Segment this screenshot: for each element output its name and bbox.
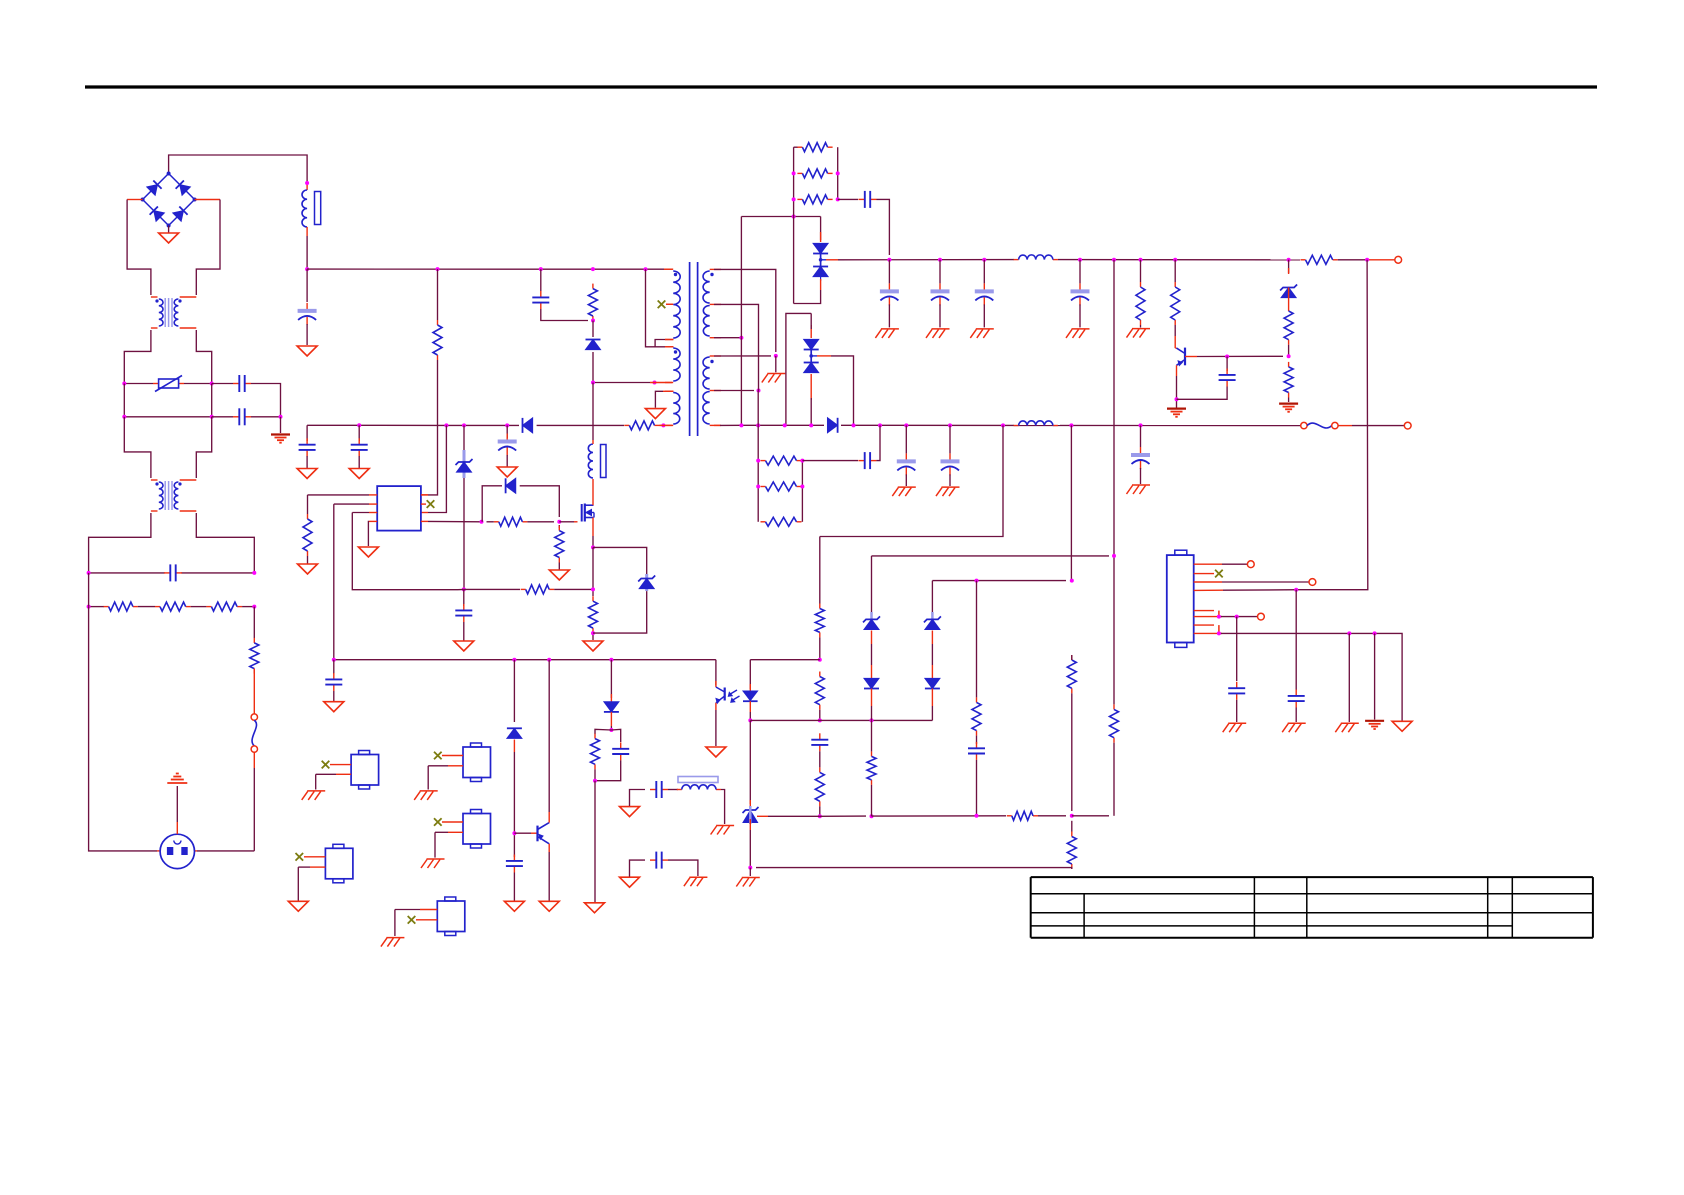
junction: [800, 459, 804, 463]
resistor R12: [797, 172, 802, 174]
ground under bridge: [159, 233, 179, 243]
wire MOSFET source: [592, 518, 594, 537]
wire snub branch: [976, 581, 978, 698]
wire to ground: [594, 781, 596, 902]
no-connect X P1: [322, 761, 330, 769]
wire pin4 cap branch: [1295, 590, 1297, 690]
junction: [512, 831, 516, 835]
wire S1 tap down: [714, 304, 759, 386]
chassis ground P3: [427, 858, 445, 860]
resistor R15: [1140, 282, 1142, 287]
chassis ground capacitor C14: [898, 486, 916, 488]
transformer T1 primary winding W4: [665, 390, 673, 392]
resistor stack R11 R12 R13: [794, 146, 798, 148]
wire pin6 cap branch: [1236, 617, 1238, 681]
resistor R1c: [206, 606, 211, 608]
capacitor C8: [888, 283, 890, 290]
wire left AC rail down to plug: [88, 573, 90, 607]
junction: [975, 814, 979, 818]
resistor R1a: [104, 606, 109, 608]
junction: [444, 423, 448, 427]
junction: [756, 459, 760, 463]
terminal -V: [1404, 422, 1411, 429]
resistor R27: [1071, 655, 1073, 660]
wire S1 bottom pin: [714, 337, 741, 339]
inductor L5: [677, 789, 682, 791]
wire clamp node to diode: [592, 321, 594, 338]
junction: [938, 258, 942, 262]
chassis ground capacitor C8: [881, 328, 899, 330]
junction: [878, 423, 882, 427]
chassis ground C16: [1132, 484, 1150, 486]
junction: [210, 415, 214, 419]
wire S1 top pin to junction: [714, 269, 776, 352]
inductor L1 with core: [306, 183, 308, 190]
junction: [591, 319, 595, 323]
junction: [1217, 631, 1221, 635]
junction: [1070, 579, 1074, 583]
connector J2 pin5: [1194, 610, 1214, 612]
transformer T1 core: [689, 262, 691, 436]
diode D6b: [813, 267, 828, 277]
wire C16 branch: [1140, 425, 1142, 447]
diode D9: [827, 418, 837, 433]
resistor R22: [819, 604, 821, 609]
transformer T1 secondary winding S2: [710, 355, 721, 357]
wire comp mid vertical: [1070, 425, 1072, 580]
wire R15 branch: [1140, 260, 1142, 282]
junction: [1069, 423, 1073, 427]
capacitor C16: [1140, 447, 1142, 454]
junction: [836, 171, 840, 175]
junction: [332, 658, 336, 662]
wire snubber cap branch 1: [306, 425, 308, 441]
capacitor C21: [620, 742, 622, 748]
junction: [852, 423, 856, 427]
capacitor C9: [939, 283, 941, 290]
circuit breaker F2: [1299, 425, 1302, 427]
wire L1 to HV rail: [306, 236, 308, 269]
junction: [1173, 258, 1177, 262]
ground LC: [620, 807, 640, 817]
ground under C1: [297, 346, 317, 356]
wire capacitor C15 branch: [949, 425, 951, 453]
wire aux rail upper: [740, 217, 742, 338]
junction: [783, 423, 787, 427]
ground under C19: [324, 702, 344, 712]
wire standby feed vertical: [1300, 260, 1368, 590]
junction: [462, 423, 466, 427]
wire aux ecap branch: [506, 425, 508, 438]
wire HV rail to transformer: [307, 268, 664, 270]
capacitor C6: [463, 604, 465, 610]
wire -V output rail: [714, 424, 720, 426]
ground P4: [288, 901, 308, 911]
junction: [252, 605, 256, 609]
wire X-cap row2: [124, 416, 211, 418]
wire LED anode: [750, 659, 820, 661]
capacitor C25: [1295, 690, 1297, 696]
no-connect X P4: [296, 853, 304, 861]
varistor RV1: [153, 383, 159, 385]
junction: [1287, 258, 1291, 262]
no-connect X pin2: [1215, 570, 1223, 578]
zener D5: [639, 579, 654, 589]
wire earth stem: [280, 417, 282, 433]
zener U3 TL431: [743, 807, 759, 813]
wire gnd branch 1349: [1348, 633, 1350, 722]
capacitor C3: [306, 438, 308, 444]
connector J2 pin7: [1194, 624, 1214, 626]
ground J2 pin8: [1392, 721, 1412, 731]
ground under C3: [297, 469, 317, 479]
transformer T1 primary winding W1: [664, 268, 673, 270]
resistor R31: [594, 734, 596, 739]
ground under R8: [549, 570, 569, 580]
wire TL431 ref: [757, 815, 768, 817]
bridge rectifier BR1: [143, 174, 169, 200]
junction: [609, 728, 613, 732]
wire gnd branch 1374: [1374, 633, 1376, 719]
capacitor C24: [1236, 682, 1238, 688]
junction: [480, 520, 484, 524]
common-mode choke LF2: [151, 479, 158, 481]
zener D8: [1281, 288, 1296, 298]
earth ground CY: [271, 433, 290, 435]
ground under R9: [583, 641, 603, 651]
chassis ground capacitor C11: [1072, 328, 1090, 330]
resistor R3 startup: [437, 320, 439, 325]
wire D6 node output stub: [826, 259, 838, 261]
inductor L1 coil: [302, 190, 307, 227]
earth ground at plug: [167, 782, 187, 784]
wire LED cathode row: [750, 719, 932, 721]
junction: [748, 718, 752, 722]
junction: [1139, 423, 1143, 427]
ground under C20: [504, 901, 524, 911]
junction: [436, 267, 440, 271]
wire bridge right vertex to right rail: [195, 199, 220, 201]
zener D12a: [925, 619, 940, 629]
chassis ground P2: [420, 790, 438, 792]
junction: [1175, 397, 1179, 401]
wire snubber loop top: [482, 486, 502, 522]
wire U1 pin1: [369, 494, 377, 496]
resistor R16: [1174, 282, 1176, 287]
junction: [1287, 354, 1291, 358]
ground C23: [620, 877, 640, 887]
junction: [756, 485, 760, 489]
junction: [739, 336, 743, 340]
wire plug earth pin: [176, 822, 178, 834]
chassis ground L5: [716, 825, 734, 827]
terminal pin1: [1247, 561, 1254, 568]
bridge ground stem: [168, 226, 170, 234]
wire winding W4 top to ground: [663, 390, 674, 392]
rectifier diode pair D7 lower: [786, 313, 811, 425]
resistor R5: [624, 424, 629, 426]
resistor R25: [1007, 815, 1012, 817]
capacitor C5 aux: [506, 434, 508, 441]
junction: [1078, 258, 1082, 262]
wire right AC rail to fuse: [253, 607, 255, 638]
junction: [748, 866, 752, 870]
wire Y-cap lower branch: [212, 416, 233, 418]
chassis ground C25: [1288, 722, 1306, 724]
zener D11a: [864, 619, 879, 629]
resistor R24: [819, 767, 821, 772]
wire MOV row: [124, 383, 153, 385]
wire zener branch +V: [1288, 260, 1290, 273]
power ground p8b: [1365, 720, 1384, 722]
junction: [547, 658, 551, 662]
wire bridge top to inductor L1: [169, 155, 308, 183]
wire winding W2 bottom jog: [655, 340, 665, 347]
connector J2 pin8: [1194, 632, 1222, 634]
ground under Q3: [539, 901, 559, 911]
junction: [818, 814, 822, 818]
wire capacitor C10 branch: [983, 260, 985, 284]
wire to -V terminal: [1352, 425, 1404, 427]
wire D6 bottom jog: [794, 290, 821, 304]
junction: [774, 354, 778, 358]
junction: [1001, 423, 1005, 427]
op-amp U1 PWM controller: [377, 486, 421, 530]
zener pair DB column: [931, 581, 933, 612]
capacitor C13: [858, 460, 864, 462]
resistor R11: [797, 146, 802, 148]
chassis ground TL431: [742, 877, 760, 879]
wire source sense resistor: [592, 547, 594, 596]
inductor L4 coil: [1014, 425, 1019, 427]
terminal pin3: [1309, 579, 1316, 586]
no-connect X primary tap: [658, 301, 666, 309]
capacitor CY2: [233, 416, 239, 418]
chassis ground P5: [386, 937, 404, 939]
resistor R29: [871, 751, 873, 756]
title block table: [1031, 876, 1593, 878]
junction: [357, 423, 361, 427]
wire source zener loop: [593, 547, 647, 574]
wire fuse to plug: [253, 752, 255, 768]
junction: [644, 267, 648, 271]
diode D12b: [925, 678, 940, 688]
wire capacitor C8 branch: [888, 260, 890, 284]
wire D7 node to minus rail: [817, 355, 831, 357]
chassis ground C24: [1228, 722, 1246, 724]
junction: [279, 415, 283, 419]
diode D14: [604, 702, 619, 712]
diode D1 clamp: [586, 340, 601, 350]
junction: [1294, 588, 1298, 592]
wire capacitor C9 branch: [939, 260, 941, 284]
wire sense cap branch: [463, 589, 465, 606]
wire R3 down to IC pin8: [428, 360, 438, 495]
wire capacitor C11 branch: [1079, 260, 1081, 284]
wire HV bulk cap branch: [306, 269, 308, 302]
no-connect X P3: [434, 818, 442, 826]
capacitor C14: [905, 453, 907, 460]
wire X2-cap row: [89, 572, 165, 574]
capacitor C10: [983, 283, 985, 290]
diode D6a: [813, 243, 828, 253]
capacitor CY1: [233, 383, 239, 385]
junction: [870, 814, 874, 818]
junction: [462, 587, 466, 591]
capacitor CX1: [164, 572, 170, 574]
wire right rail down: [196, 200, 220, 296]
inductor L3: [1014, 259, 1019, 261]
connector P4: [325, 848, 353, 879]
wire U1 pin2: [369, 503, 377, 505]
junction: [1217, 615, 1221, 619]
junction: [305, 181, 309, 185]
wire Q3 emitter: [548, 844, 550, 852]
wire below choke LF1 left: [124, 330, 151, 384]
diode D2: [523, 418, 533, 433]
transformer T1 primary winding W3: [665, 346, 673, 348]
connector J2 body: [1167, 555, 1194, 642]
junction: [122, 415, 126, 419]
junction: [305, 267, 309, 271]
ground under R6: [298, 564, 318, 574]
transformer T1 secondary winding S1: [710, 268, 721, 270]
junction: [887, 258, 891, 262]
junction: [505, 423, 509, 427]
resistor R21: [761, 521, 766, 523]
wire R16 branch: [1174, 260, 1176, 282]
resistor R6: [307, 514, 309, 519]
zener pair DA column: [871, 556, 873, 612]
wire S2 tap: [714, 390, 754, 392]
junction: [252, 571, 256, 575]
resistor R14: [1301, 259, 1306, 261]
x-mark primary tap pin: [666, 303, 673, 305]
wire gate pulldown resistor: [558, 525, 560, 528]
no-connect X P2: [434, 752, 442, 760]
wire zener top row B: [932, 580, 1066, 582]
wire VCC zener branch: [463, 425, 465, 450]
wire stack right rail: [837, 147, 839, 199]
wire pin2 node row: [334, 659, 716, 661]
junction: [1070, 814, 1074, 818]
wire zener top row A: [872, 555, 1110, 557]
junction: [739, 423, 743, 427]
transistor Q3: [536, 826, 538, 842]
page frame top rule: [85, 85, 1597, 88]
capacitor C4: [358, 438, 360, 444]
resistor R1b: [155, 606, 160, 608]
junction: [1365, 258, 1369, 262]
junction: [512, 658, 516, 662]
junction: [591, 631, 595, 635]
diode D4 gate: [506, 478, 516, 493]
connector P2: [463, 747, 491, 778]
resistor R23: [819, 672, 821, 677]
connector J2 pin2: [1194, 573, 1214, 575]
no-connect X P5: [408, 916, 416, 924]
wire U1 pin4 to ground: [369, 520, 377, 522]
wire clamp cap branch: [540, 269, 542, 291]
wire clamp node down to bead: [592, 383, 594, 441]
wire comp vertical right: [1113, 556, 1115, 705]
wire Q3 base: [514, 832, 531, 834]
wire tap bleeder stack: [757, 391, 759, 426]
wire left rail MOV to row2: [123, 384, 125, 417]
power ground R18: [1279, 403, 1298, 405]
junction: [800, 485, 804, 489]
resistor R18: [1288, 362, 1290, 367]
capacitor C15: [949, 453, 951, 460]
junction: [87, 571, 91, 575]
wire Q2 base: [1185, 356, 1197, 358]
wire stack to cap: [838, 198, 858, 200]
junction: [792, 215, 796, 219]
junction: [1235, 615, 1239, 619]
wire D1 to winding: [593, 352, 650, 383]
wire TL431 cathode to ground: [749, 868, 751, 876]
resistor R19: [761, 460, 766, 462]
connector J2 pin1: [1194, 563, 1222, 565]
capacitor C11: [1079, 283, 1081, 290]
resistor R7 gate: [494, 521, 499, 523]
wire Q2 base-emitter cap: [1226, 357, 1228, 372]
junction: [818, 658, 822, 662]
junction: [87, 605, 91, 609]
junction: [1139, 258, 1143, 262]
chassis ground capacitor C10: [976, 328, 994, 330]
wire Y-cap upper branch: [212, 383, 233, 385]
wire pin6 feedback branch: [428, 425, 446, 512]
wire Q3 collector: [548, 812, 550, 823]
junction: [661, 423, 665, 427]
diode D13: [507, 728, 522, 738]
wire U1 pin3: [369, 512, 377, 514]
LED D10 of optocoupler: [749, 660, 751, 689]
resistor R28: [1071, 832, 1073, 837]
wire snubber cap branch 2: [358, 425, 360, 441]
resistor R30: [976, 697, 978, 702]
wire below choke LF2 left: [89, 513, 151, 573]
capacitor C2 clamp: [540, 291, 542, 297]
wire CY1 to earth column: [251, 384, 281, 417]
wire bridge left vertex to left rail: [127, 199, 143, 201]
ground at W4 top: [645, 409, 665, 419]
junction: [593, 779, 597, 783]
junction: [982, 258, 986, 262]
ground under C4: [349, 469, 369, 479]
resistor R8: [558, 526, 560, 531]
chassis ground R15: [1132, 328, 1150, 330]
wire stack2 right rail: [801, 461, 803, 522]
ground under C6: [454, 641, 474, 651]
ground under opto: [706, 747, 726, 757]
junction: [809, 423, 813, 427]
wire D13 branch: [513, 660, 515, 722]
wire MOSFET drain to bead: [593, 513, 595, 518]
junction: [818, 718, 822, 722]
wire bleeder resistor row: [89, 606, 104, 608]
wire upper divider: [819, 537, 821, 604]
chassis ground C23b: [689, 876, 707, 878]
wire Q2 emitter down: [1176, 365, 1178, 376]
junction: [591, 545, 595, 549]
wire left rail down: [127, 200, 151, 296]
ground under U1: [358, 547, 378, 557]
junction: [1112, 258, 1116, 262]
wire capacitor C14 branch: [905, 425, 907, 453]
opto light arrows: [730, 690, 738, 695]
